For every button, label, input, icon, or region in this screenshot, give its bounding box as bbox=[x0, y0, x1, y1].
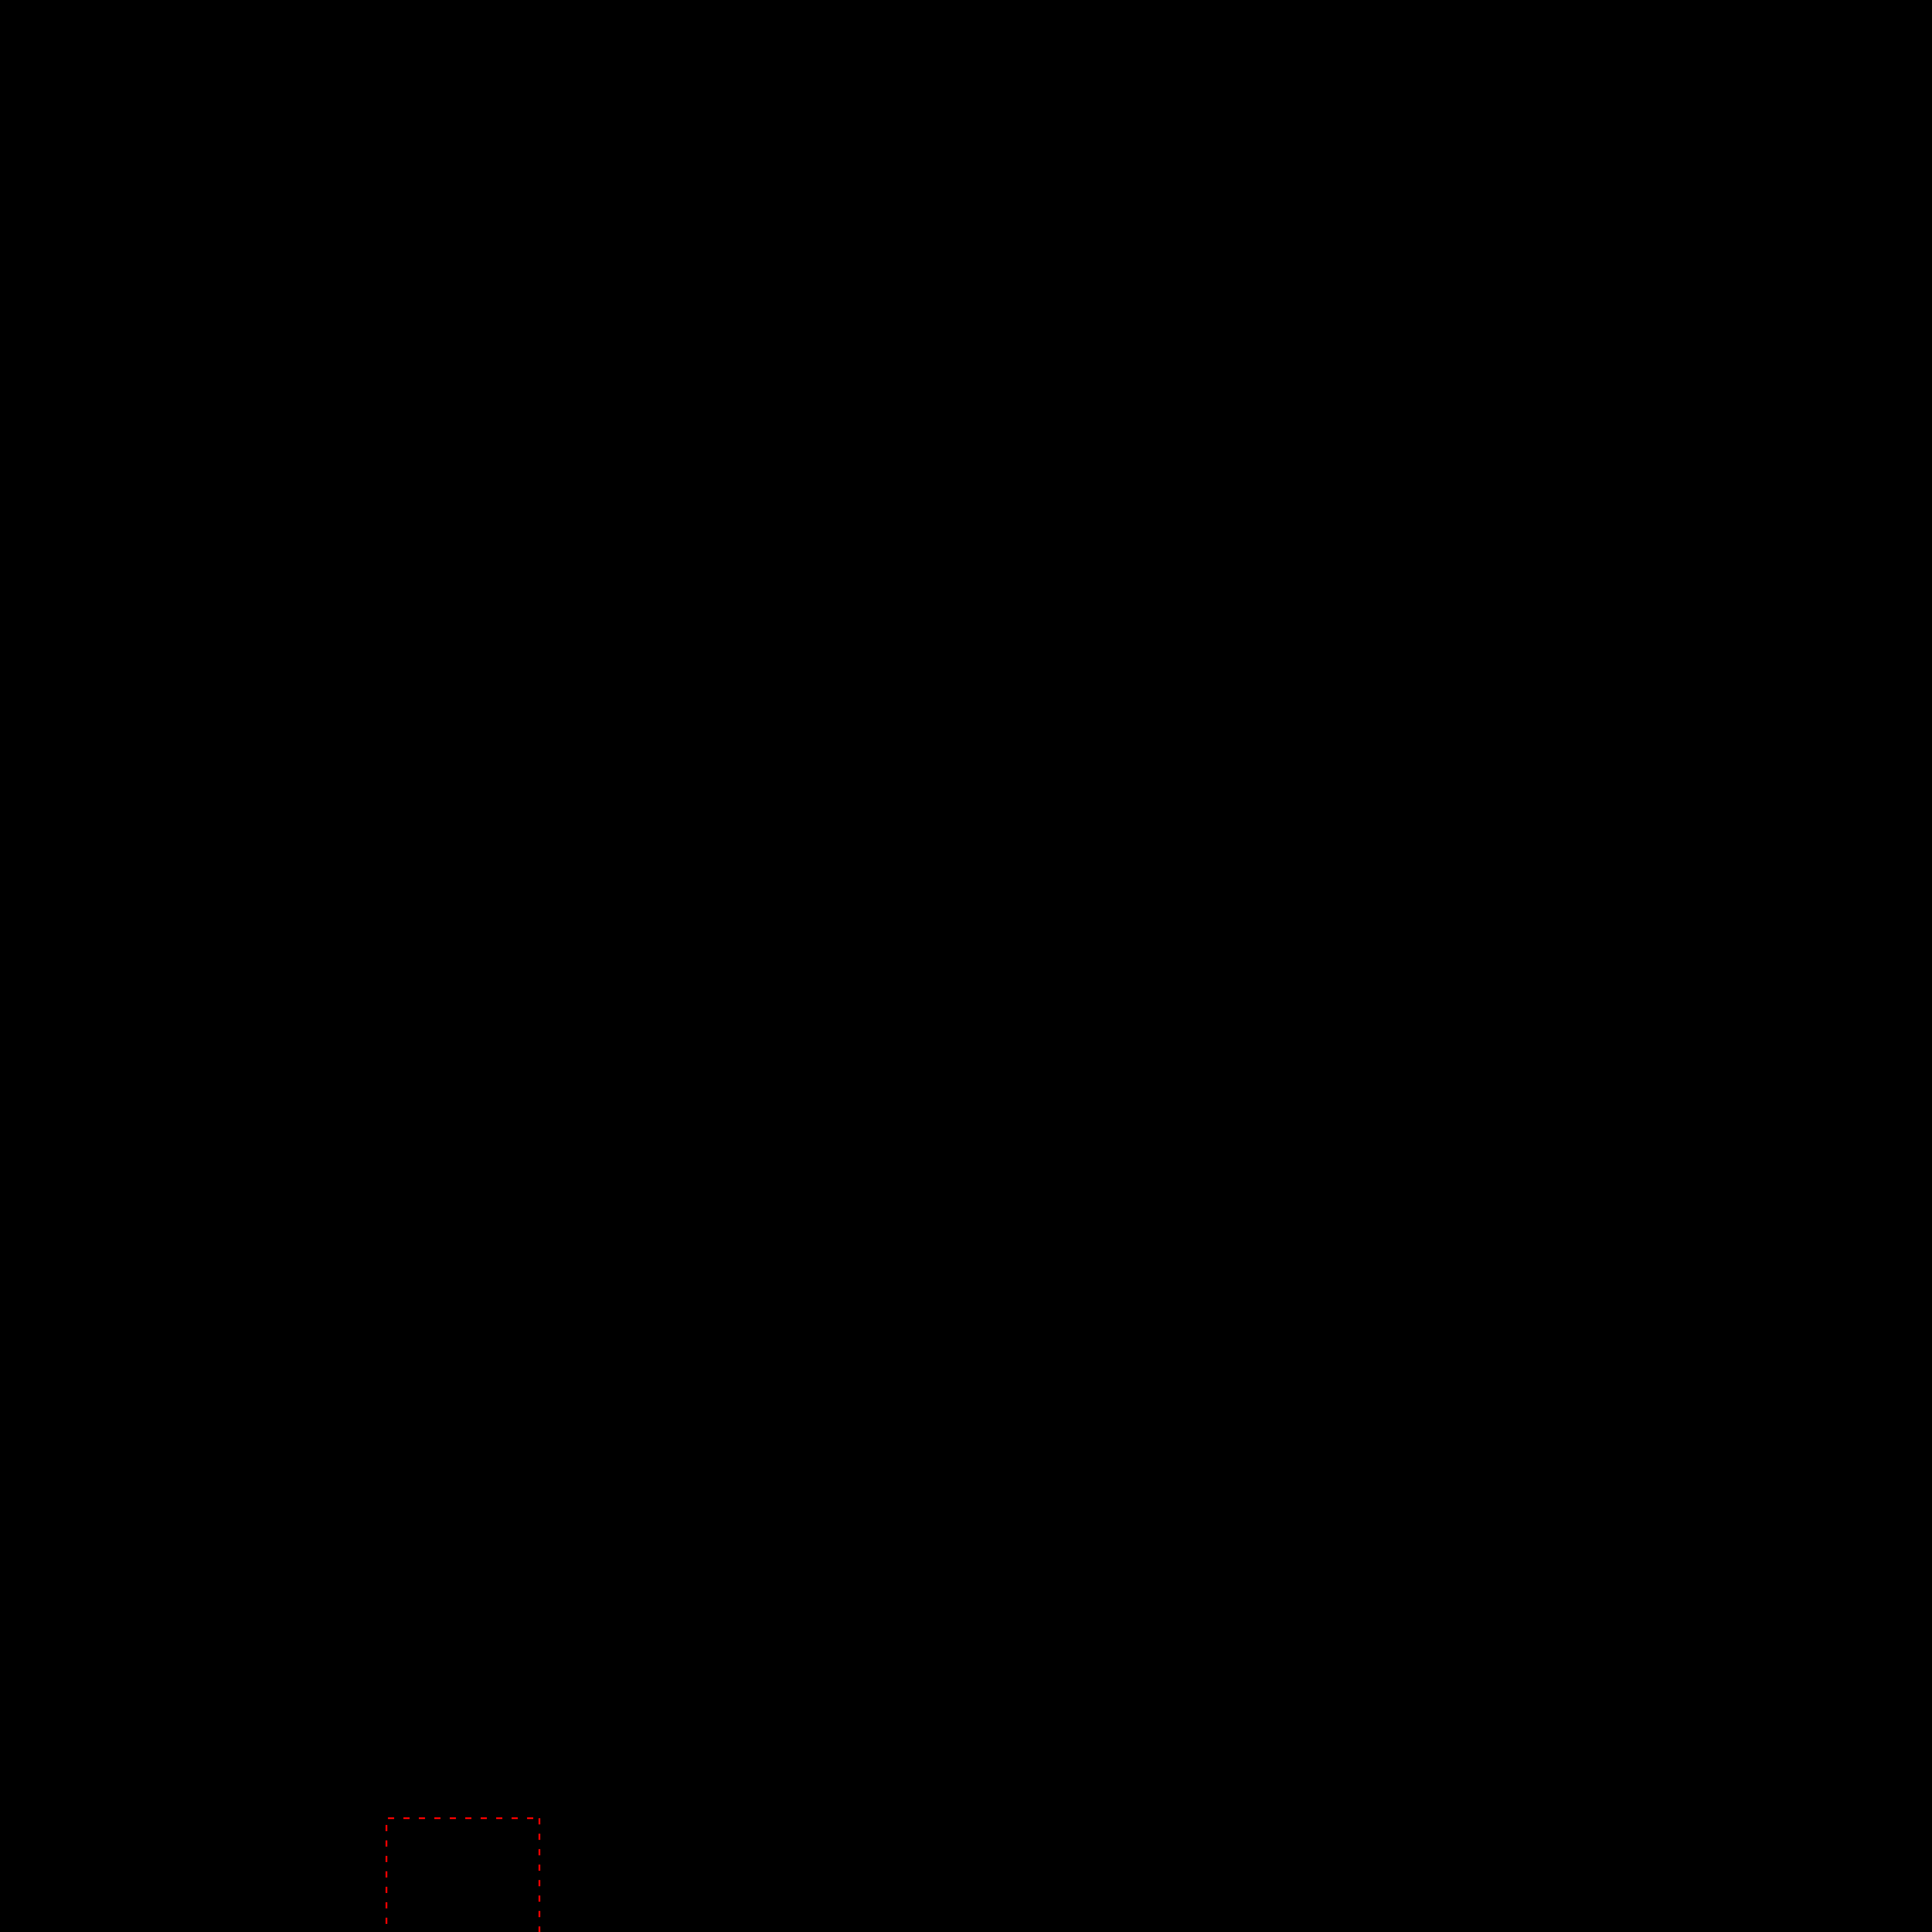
annotation box B1 (dashed square, left middle) bbox=[386, 1818, 539, 1932]
